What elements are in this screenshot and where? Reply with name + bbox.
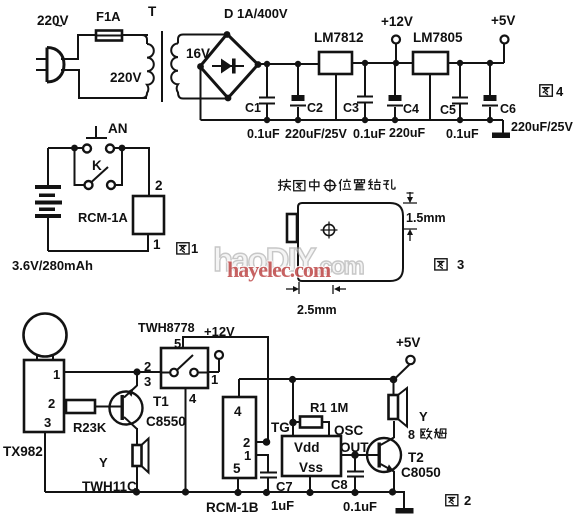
svg-text:TWH8778: TWH8778 — [138, 321, 195, 335]
contact circle AN right — [106, 145, 114, 153]
svg-text:1: 1 — [191, 241, 198, 256]
svg-text:1: 1 — [153, 237, 161, 252]
svg-text:F1A: F1A — [96, 9, 121, 24]
svg-text:+5V: +5V — [396, 335, 420, 350]
TWH8778 U3 — [138, 321, 218, 406]
transformer core — [161, 31, 163, 102]
node dot right — [119, 145, 126, 152]
capacitor C1 0.1uF — [245, 61, 280, 141]
transistor T1 C8550 — [110, 372, 186, 445]
RCM-1B pin5 to ground rail — [237, 478, 239, 492]
rail 7812 to 7805 — [352, 62, 413, 64]
wire TWH8778 pin1 to terminal — [208, 371, 219, 373]
push button AN — [86, 121, 128, 138]
svg-text:TX982: TX982 — [3, 444, 43, 459]
svg-text:4: 4 — [189, 391, 197, 406]
wire secondary top to bridge — [183, 34, 227, 36]
microphone head circle — [24, 314, 67, 357]
label fig4 — [540, 84, 564, 99]
svg-text:2: 2 — [155, 178, 163, 193]
TWH8778 inner switch contacts — [161, 355, 208, 376]
svg-text:C2: C2 — [307, 101, 323, 115]
IC U4 Vdd/Vss — [282, 436, 341, 476]
title 按图中(+)位置钻孔 — [279, 179, 396, 191]
OUT wire to T2 base — [340, 440, 378, 459]
+5V terminal fig2 — [394, 335, 420, 380]
pin5 riser and +12V net wire — [183, 337, 268, 442]
wire plug to fuse — [61, 35, 96, 59]
node dot +5V — [390, 376, 398, 384]
drill mark (+) — [321, 222, 337, 238]
IC Vss pin to ground — [309, 476, 311, 492]
TG node and riser to +5V — [271, 376, 297, 436]
svg-text:Vss: Vss — [299, 460, 323, 475]
node dot pin2/+12V — [263, 438, 271, 446]
rail 7805 to +5V — [448, 62, 504, 64]
svg-text:R1 1M: R1 1M — [310, 400, 348, 415]
relay blade K — [92, 167, 109, 182]
speaker Y TWH11C — [82, 439, 149, 495]
node dot pin4 — [182, 488, 189, 495]
RCM-1B pin2 stub — [256, 441, 266, 443]
AC plug P1 — [36, 48, 64, 83]
svg-text:2: 2 — [48, 396, 55, 411]
svg-text:0.1uF: 0.1uF — [343, 499, 377, 514]
svg-text:1: 1 — [244, 448, 251, 463]
contact circle AN left — [83, 145, 91, 153]
svg-text:2: 2 — [144, 359, 151, 374]
speaker Y 8ohm — [389, 388, 447, 442]
ground symbol fig4 — [492, 120, 510, 138]
capacitor C3 0.1uF — [343, 60, 386, 141]
fuse F1A — [96, 9, 122, 41]
svg-text:+12V: +12V — [204, 324, 235, 339]
RCM-1A module — [78, 196, 164, 234]
module outline fig3 — [298, 203, 403, 281]
svg-text:4: 4 — [234, 404, 242, 419]
wire speaker to ground rail — [136, 466, 138, 492]
+12V terminal — [381, 14, 413, 64]
svg-text:3: 3 — [144, 374, 151, 389]
svg-text:C3: C3 — [343, 101, 359, 115]
top +rail segment bridge to 7812 — [258, 63, 319, 65]
wire fuse to transformer primary — [122, 34, 148, 36]
svg-text:8: 8 — [408, 428, 415, 442]
wire contacts to RCM-1A pin2 corner — [114, 148, 149, 196]
svg-text:R23K: R23K — [73, 420, 107, 435]
transistor T2 C8050 — [367, 421, 441, 492]
+5V terminal — [491, 13, 515, 63]
svg-text:C5: C5 — [440, 103, 456, 117]
svg-text:C1: C1 — [245, 101, 261, 115]
svg-text:1: 1 — [211, 372, 218, 387]
wire down to relay contact right — [115, 148, 122, 185]
transformer T primary winding 220V — [110, 35, 154, 98]
fig2 ground rail — [45, 491, 405, 493]
ground symbol fig2 — [396, 492, 414, 514]
svg-text:5: 5 — [174, 336, 181, 351]
RCM-1B pin1 stub to C7 — [256, 455, 268, 472]
wire TX982 pin2 to R2 — [64, 406, 66, 408]
svg-text:~: ~ — [55, 18, 63, 33]
relay contact K right circle — [107, 181, 115, 189]
node dot vss — [306, 489, 313, 496]
bottom wire fig1 — [48, 234, 148, 251]
label fig1 — [177, 241, 198, 256]
svg-text:T1: T1 — [153, 394, 169, 409]
svg-text:Y: Y — [99, 455, 108, 470]
svg-text:Vdd: Vdd — [294, 440, 320, 455]
watermark haoDIY gray — [213, 241, 363, 280]
relay contact K left circle — [85, 181, 93, 189]
wire R2 to T1 base — [95, 406, 121, 408]
LM7805 ground pin — [429, 74, 431, 120]
label 220V~ mains — [37, 13, 69, 33]
capacitor C8 0.1uF — [331, 455, 377, 514]
TX982 module — [3, 360, 64, 459]
svg-text:C8050: C8050 — [401, 465, 441, 480]
svg-text:Y: Y — [419, 409, 428, 424]
capacitor C4 220uF — [387, 60, 425, 140]
svg-text:3.6V/280mAh: 3.6V/280mAh — [12, 258, 93, 273]
svg-text:C4: C4 — [403, 102, 419, 116]
+12V terminal circle fig2 — [215, 351, 223, 372]
top wire battery to contacts — [48, 147, 83, 149]
node dot T2 emitter — [389, 488, 396, 495]
LM7805 U2 — [413, 30, 463, 74]
svg-text:C8550: C8550 — [146, 414, 186, 429]
svg-text:220uF/25V: 220uF/25V — [511, 120, 574, 134]
capacitor C7 1uF — [260, 473, 294, 514]
wire TX982 pin1 to TWH8778 pin2 — [64, 371, 161, 373]
mic neck — [37, 355, 53, 361]
capacitor C5 0.1uF — [440, 60, 479, 141]
svg-text:1.5mm: 1.5mm — [406, 211, 446, 225]
svg-text:1: 1 — [53, 367, 60, 382]
side tab — [287, 214, 297, 242]
svg-text:1uF: 1uF — [271, 498, 294, 513]
dimension 2.5mm — [286, 282, 346, 317]
svg-text:0.1uF: 0.1uF — [353, 127, 386, 141]
node dot left — [71, 145, 78, 152]
svg-text:T2: T2 — [408, 450, 424, 465]
transformer secondary winding 16V — [171, 35, 210, 99]
RCM-1B pin4 riser to +5V rail — [238, 379, 240, 397]
svg-text:220V: 220V — [37, 13, 69, 28]
svg-text:+12V: +12V — [381, 14, 413, 29]
wire plug to primary bottom — [61, 70, 147, 98]
wire down to relay contact left — [75, 148, 85, 185]
wire bridge minus to ground rail — [200, 67, 202, 121]
capacitor C2 220uF/25V — [285, 61, 348, 141]
svg-text:T: T — [148, 4, 157, 19]
bottom ground rail fig4 — [201, 119, 504, 121]
resistor R1 1M — [293, 400, 348, 436]
node dot pin5 — [234, 489, 241, 496]
RCM-1B module — [206, 397, 259, 515]
wire +5V rail to speaker — [393, 379, 395, 395]
label fig3 — [435, 257, 464, 272]
svg-text:0.1uF: 0.1uF — [446, 127, 479, 141]
battery GB 3.6V — [35, 148, 62, 251]
svg-text:TG: TG — [271, 420, 290, 435]
svg-text:220uF/25V: 220uF/25V — [285, 127, 348, 141]
resistor R2 3K — [66, 400, 107, 435]
wire secondary bottom to bridge — [183, 98, 226, 100]
+5V rail fig2 — [239, 378, 394, 380]
node dot speaker — [133, 488, 140, 495]
svg-text:3: 3 — [44, 415, 51, 430]
svg-text:C8: C8 — [331, 477, 348, 492]
svg-text:RCM-1A: RCM-1A — [78, 210, 128, 225]
dimension 1.5mm — [403, 192, 446, 241]
svg-text:3: 3 — [457, 257, 464, 272]
bridge rectifier D — [197, 31, 261, 101]
svg-text:RCM-1B: RCM-1B — [206, 500, 259, 515]
svg-text:hayelec.com: hayelec.com — [227, 257, 331, 282]
TX982 pin3 to ground rail — [44, 432, 46, 492]
svg-text:2.5mm: 2.5mm — [297, 303, 337, 317]
svg-text:2: 2 — [464, 493, 471, 508]
svg-text:K: K — [92, 158, 102, 173]
svg-text:LM7812: LM7812 — [314, 30, 364, 45]
svg-text:C7: C7 — [276, 479, 293, 494]
svg-text:D 1A/400V: D 1A/400V — [224, 6, 288, 21]
svg-text:AN: AN — [108, 121, 128, 136]
svg-text:0.1uF: 0.1uF — [247, 127, 280, 141]
svg-text:+5V: +5V — [491, 13, 515, 28]
LM7812 U1 — [314, 30, 364, 74]
svg-text:OSC: OSC — [334, 423, 364, 438]
LM7812 ground pin — [335, 74, 337, 120]
node dot T1 emitter — [133, 368, 140, 375]
svg-text:5: 5 — [233, 461, 241, 476]
label fig2 — [446, 493, 471, 508]
svg-text:220uF: 220uF — [389, 126, 425, 140]
svg-text:4: 4 — [556, 84, 564, 99]
svg-text:220V: 220V — [110, 70, 142, 85]
TWH8778 pin4 to ground rail — [185, 388, 187, 492]
svg-text:C6: C6 — [500, 102, 516, 116]
capacitor C6 220uF/25V — [482, 60, 574, 134]
svg-text:LM7805: LM7805 — [413, 30, 463, 45]
